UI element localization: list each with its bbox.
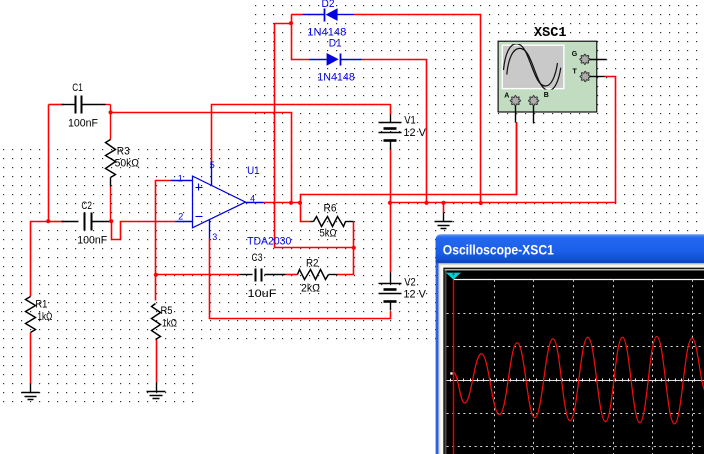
svg-text:C1: C1 — [72, 82, 83, 94]
svg-text:B: B — [544, 92, 549, 99]
diode D2 1N4148 — [303, 0, 354, 38]
wire: ground rail stem — [443, 203, 445, 213]
oscilloscope icon XSC1 — [498, 26, 606, 123]
oscilloscope window XSC1 — [436, 234, 704, 454]
wire: V+ rail V1 to pin5 — [212, 105, 391, 164]
wire: R3 top node to op-amp output vertical — [111, 113, 292, 203]
wire: diode pair left vertical — [292, 15, 310, 60]
svg-text:3: 3 — [212, 232, 217, 242]
wire: V1 bottom to rail to V2 top — [390, 149, 392, 273]
svg-text:V1: V1 — [404, 114, 416, 126]
svg-text:Oscilloscope-XSC1: Oscilloscope-XSC1 — [443, 243, 554, 258]
op-amp U1 TDA2030 — [171, 160, 292, 247]
wire: C2-left to R1 top — [31, 222, 49, 297]
svg-text:D2: D2 — [322, 0, 335, 10]
svg-text:XSC1: XSC1 — [534, 26, 567, 41]
wire: D1 right to ground rail — [362, 60, 427, 203]
wire: feedback node to diode pair left — [275, 24, 354, 248]
svg-text:C3: C3 — [252, 252, 263, 264]
svg-text:C2: C2 — [81, 200, 92, 212]
svg-text:G: G — [572, 51, 578, 58]
svg-text:1: 1 — [178, 173, 183, 183]
svg-text:R1: R1 — [35, 299, 47, 311]
svg-text:12 V: 12 V — [403, 289, 426, 301]
wire: C2 left connector — [49, 221, 64, 223]
svg-text:R6: R6 — [324, 203, 337, 215]
svg-text:D1: D1 — [329, 38, 342, 50]
capacitor C1 100nF — [62, 82, 111, 140]
svg-text:1N4148: 1N4148 — [307, 26, 346, 38]
svg-text:4: 4 — [250, 194, 255, 204]
battery V1 12V — [379, 114, 427, 149]
svg-text:1kΩ: 1kΩ — [162, 318, 177, 330]
svg-text:5kΩ: 5kΩ — [320, 228, 337, 240]
wire: R1 bottom to ground — [30, 333, 32, 384]
svg-text:V2: V2 — [404, 276, 416, 288]
svg-text:R2: R2 — [306, 258, 319, 270]
wire: R5 bottom to ground — [156, 340, 158, 383]
ground under R1 — [22, 384, 40, 400]
capacitor C2 100nF — [62, 200, 110, 247]
svg-text:100nF: 100nF — [68, 117, 98, 129]
wire: D2 right to ground rail — [354, 15, 481, 204]
svg-text:50kΩ: 50kΩ — [115, 157, 139, 169]
battery V2 12V — [379, 273, 427, 311]
svg-text:2: 2 — [178, 211, 183, 221]
wire: C3-R2 short link — [286, 274, 298, 276]
svg-text:100nF: 100nF — [77, 234, 107, 246]
resistor R1 1k — [26, 297, 53, 333]
resistor R5 1k — [152, 304, 178, 340]
ground under R5 — [147, 383, 166, 399]
svg-text:R3: R3 — [117, 146, 130, 158]
wire: op-amp output — [264, 202, 301, 204]
svg-text:5: 5 — [210, 160, 215, 170]
svg-text:1kΩ: 1kΩ — [37, 311, 52, 323]
svg-text:12 V: 12 V — [403, 127, 426, 139]
wire: op-amp pin1 to R5 vertical — [156, 181, 171, 301]
svg-text:1N4148: 1N4148 — [317, 72, 355, 84]
wire: C1-left / C2-left vertical node — [48, 105, 50, 222]
svg-text:U1: U1 — [247, 165, 260, 177]
svg-text:10uF: 10uF — [248, 288, 277, 300]
wire: C3 node horizontal — [156, 274, 240, 276]
resistor R2 2k — [298, 258, 338, 295]
wire: R2 right to feedback node — [338, 222, 354, 275]
wire: output to scope channel A — [301, 123, 517, 203]
svg-text:TDA2030: TDA2030 — [247, 235, 291, 247]
resistor R6 5k — [311, 203, 354, 240]
wire: R3-C2 node U-jog to op-amp pin2 — [112, 222, 176, 240]
svg-text:R5: R5 — [161, 305, 173, 317]
wire: ground rail — [391, 77, 616, 203]
wire: D2 left stub — [292, 14, 303, 16]
svg-text:2kΩ: 2kΩ — [301, 282, 320, 294]
wire: V1 top lead — [390, 105, 392, 115]
wire: V2 bottom to pin3 — [210, 239, 391, 319]
ground on rail — [435, 213, 453, 229]
diode D1 1N4148 — [310, 38, 362, 84]
capacitor C3 10uF — [240, 252, 286, 300]
wire: output to R6 left — [301, 203, 311, 222]
svg-text:T: T — [573, 68, 578, 75]
wire: scope A lead lower part — [516, 123, 518, 195]
svg-text:A: A — [504, 92, 509, 99]
wire: C1 left connector — [49, 104, 64, 106]
resistor R3 50k — [106, 140, 140, 222]
